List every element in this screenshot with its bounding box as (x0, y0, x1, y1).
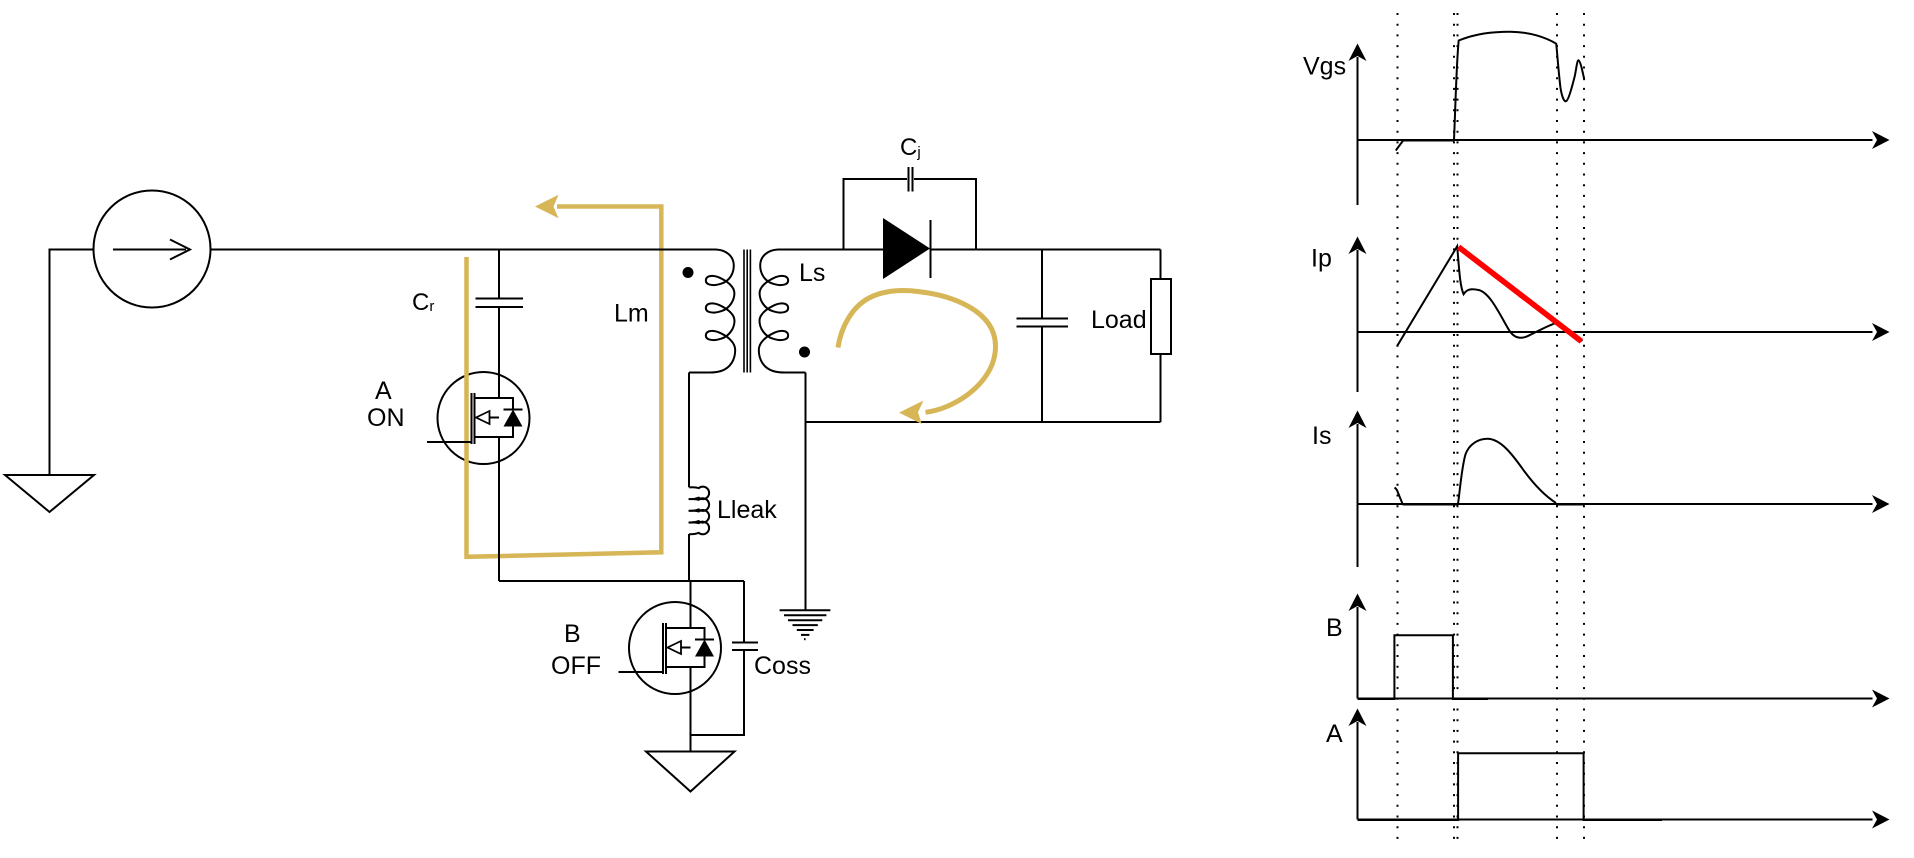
inductor Lleak (689, 487, 710, 535)
Is waveform (1458, 439, 1556, 504)
wire Cr to A drain (498, 307, 500, 398)
timing grid dotted lines (1398, 13, 1585, 841)
Is start spike (1395, 487, 1403, 504)
wire over clamp loop (A source) (498, 540, 500, 581)
A horizontal axis (1358, 819, 1873, 821)
B vertical axis (1357, 607, 1359, 699)
wire Cj left (844, 179, 908, 250)
svg-text:Vgs: Vgs (1303, 53, 1346, 81)
svg-text:Lm: Lm (614, 300, 649, 328)
current source I1 (94, 191, 211, 308)
B pulse (1358, 635, 1489, 699)
secondary current loop (yellow) (838, 291, 996, 413)
Ip vertical axis (1357, 250, 1359, 392)
svg-text:B: B (564, 620, 581, 648)
ground B (646, 752, 735, 792)
Vgs vertical axis (1357, 57, 1359, 205)
svg-text:A: A (1326, 720, 1343, 748)
wire B source to ground (690, 667, 692, 752)
wire top rail primary (211, 249, 717, 251)
capacitor Cj (909, 167, 913, 192)
Ip horizontal axis (1358, 331, 1873, 333)
Ip linear discharge highlight (red) (1459, 247, 1582, 341)
svg-text:Lleak: Lleak (717, 496, 777, 524)
transformer secondary winding Ls (759, 250, 806, 373)
svg-text:A: A (375, 377, 392, 405)
diode D (883, 218, 931, 279)
Ip waveform (1397, 246, 1582, 346)
Vgs horizontal axis (1358, 139, 1873, 141)
wire bottom rail primary (499, 580, 744, 582)
svg-text:Load: Load (1091, 306, 1147, 334)
transformer primary winding Lm (689, 250, 735, 373)
A pulse (1358, 753, 1663, 820)
wire Lleak to bottom rail (688, 534, 690, 581)
capacitor Coss (732, 643, 758, 651)
svg-text:B: B (1326, 614, 1343, 642)
ground secondary (earth) (780, 610, 831, 639)
wire load bottom (1160, 354, 1162, 422)
transistor B (MOSFET) (619, 602, 722, 694)
wire over clamp loop (top rail) (630, 249, 700, 251)
wire primary bottom to Lleak (688, 373, 690, 488)
wire load top (1160, 250, 1162, 280)
wire Coss bottom (691, 650, 745, 735)
svg-text:Cj: Cj (900, 134, 921, 161)
wire diode to output (931, 249, 1161, 251)
B horizontal axis (1358, 698, 1873, 700)
svg-text:Ip: Ip (1311, 245, 1332, 273)
Is vertical axis (1357, 424, 1359, 567)
svg-text:ON: ON (367, 404, 405, 432)
capacitor Cr (476, 299, 524, 308)
wire A source down (498, 437, 500, 581)
clamp loop arrowhead (535, 195, 559, 218)
Vgs waveform (1454, 32, 1584, 140)
Is horizontal axis (1358, 503, 1873, 505)
wire B drain (690, 581, 692, 628)
wire secondary bottom down (805, 373, 807, 610)
Vgs start tick (1396, 140, 1404, 151)
svg-text:Ls: Ls (799, 259, 825, 287)
dot primary (683, 267, 694, 278)
wire over clamp loop (gate lead A) (427, 441, 472, 443)
svg-text:Cr: Cr (412, 289, 434, 316)
clamp current loop (yellow) (467, 207, 662, 557)
transistor A (MOSFET) (427, 372, 530, 464)
secondary loop arrowhead (899, 401, 924, 425)
svg-text:Is: Is (1312, 422, 1331, 450)
resistor Load (1151, 279, 1171, 354)
transformer core (744, 250, 750, 373)
wire bottom rail secondary (806, 421, 1161, 423)
dot secondary (799, 347, 810, 358)
svg-text:OFF: OFF (551, 652, 601, 680)
wire Coss top (743, 581, 745, 642)
ground input (5, 475, 94, 512)
wire top rail secondary to diode (778, 249, 883, 251)
A vertical axis (1357, 722, 1359, 820)
wire output cap bottom (1041, 327, 1043, 422)
svg-text:Coss: Coss (754, 652, 811, 680)
wire input left (50, 250, 94, 476)
wire output cap top (1041, 250, 1043, 319)
capacitor output (1017, 319, 1069, 327)
wire Cr top (498, 250, 500, 299)
wire Cj right (914, 179, 976, 250)
